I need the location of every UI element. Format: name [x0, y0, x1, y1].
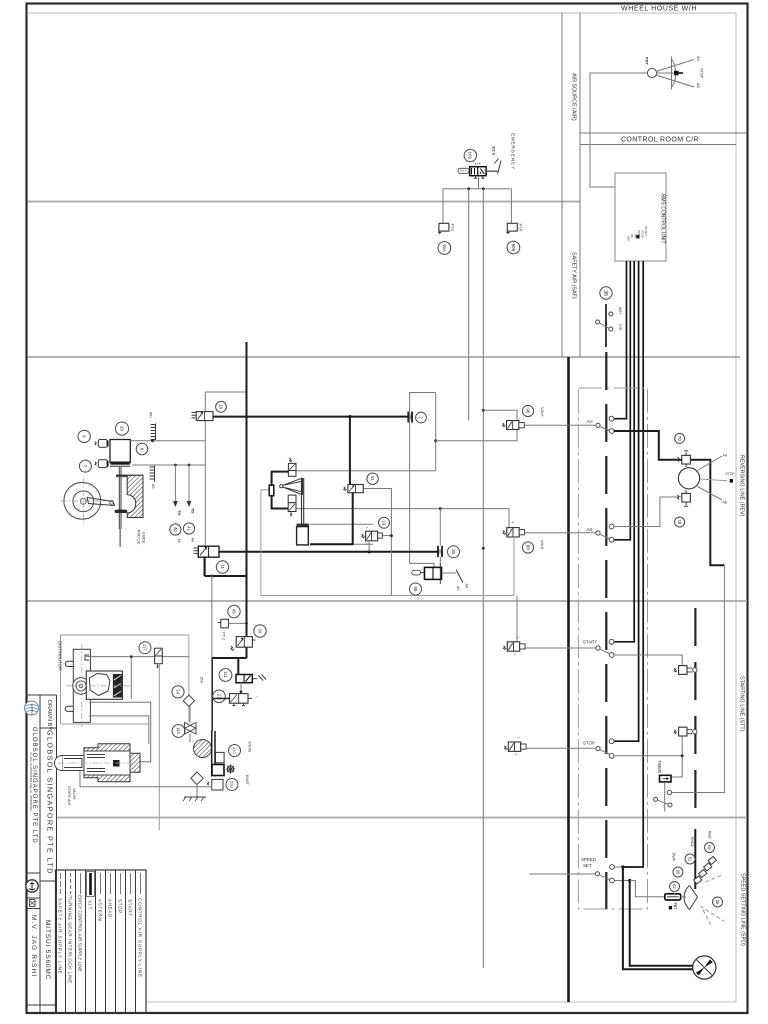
BMS tiny indicator square	[636, 235, 639, 238]
wire valve117 down	[158, 664, 160, 830]
distributor enclosure left	[60, 635, 62, 724]
svg-text:SAFETY AIR (SAF): SAFETY AIR (SAF)	[571, 252, 577, 299]
distributor lower output B	[89, 716, 149, 744]
svg-text:AS: AS	[696, 83, 700, 89]
pilot valve lower	[288, 495, 296, 516]
legend sample col7 stop	[120, 873, 122, 894]
STOP terminal upper	[609, 739, 614, 744]
manifold bold bottom y=576	[205, 575, 247, 577]
svg-text:REVERSING LINE (REV): REVERSING LINE (REV)	[739, 455, 745, 517]
title block divider x=40	[39, 695, 41, 1012]
svg-text:Co. Reg. No 200103428M Regn N: Co. Reg. No 200103428M Regn No.: ZPM0000…	[29, 752, 33, 812]
svg-text:STOP: STOP	[641, 230, 645, 238]
junction dot comb AH	[151, 439, 154, 442]
svg-text:AS: AS	[587, 527, 593, 532]
check diamond ES	[191, 772, 203, 784]
link flange30 to valve 85	[439, 557, 441, 568]
circle 41	[183, 523, 194, 534]
channel bottom thin	[354, 543, 374, 545]
reversing solenoid lower	[678, 490, 691, 506]
junction dots speed	[621, 865, 624, 868]
svg-text:DRAWN BY: DRAWN BY	[46, 700, 52, 730]
arrow line TO 40	[173, 465, 178, 507]
svg-text:PDT: PDT	[645, 57, 650, 66]
frame: inner margin right line	[735, 13, 737, 1002]
valve 11 output bold wire	[219, 551, 437, 553]
valve 11 to bottom bold link	[204, 557, 206, 576]
svg-text:EM'CY CONTROL AIR SUPPLY LINE: EM'CY CONTROL AIR SUPPLY LINE	[78, 895, 83, 972]
distributor output wire to 117	[86, 656, 189, 658]
svg-text:ASTERN: ASTERN	[98, 899, 103, 921]
AH output bold wire to reversing valve	[614, 431, 724, 565]
svg-text:SAFETY AIR SUPPLY LINE: SAFETY AIR SUPPLY LINE	[58, 898, 63, 975]
valve 61	[344, 485, 364, 493]
safety air header wire	[443, 188, 511, 190]
governor bold guide line	[694, 829, 696, 889]
svg-text:START: START	[128, 899, 133, 917]
valve 117	[155, 648, 163, 668]
stop valve body	[505, 737, 527, 756]
valve 98 output wire	[524, 424, 596, 426]
svg-text:CONTROL AIR SUPPLY LINE: CONTROL AIR SUPPLY LINE	[138, 898, 143, 978]
valve 61 pilot drop	[349, 417, 351, 485]
valve 27 left port to ES drop	[212, 698, 229, 700]
changeover pivot and blade	[596, 320, 600, 324]
component 111 box	[236, 675, 252, 683]
svg-text:28: 28	[257, 628, 262, 633]
svg-text:E/S AS: E/S AS	[248, 742, 252, 753]
section line y=201	[28, 201, 581, 203]
wire bowtie down	[189, 734, 191, 742]
SPEED output link upper	[614, 866, 623, 868]
wire start air valve drain to interlock	[80, 771, 212, 787]
loop port block	[269, 485, 274, 496]
svg-text:3/2 V: 3/2 V	[492, 146, 497, 156]
BMS output line 5 (SPEED)	[623, 261, 643, 867]
emergency bold riser x=246	[246, 342, 248, 658]
svg-text:START: START	[583, 640, 597, 645]
big air box bottom edge	[410, 563, 434, 567]
svg-text:AS: AS	[630, 234, 634, 238]
svg-text:35K: 35K	[200, 677, 204, 684]
start valve output wire	[525, 647, 596, 649]
TIMER switch pivot	[654, 797, 658, 801]
wire upper plunger valve to box	[296, 470, 436, 472]
connecting link	[87, 498, 115, 506]
junction dot right	[482, 187, 485, 190]
crank flywheel outer	[64, 482, 101, 519]
legend sample col3 emcy control line	[80, 873, 82, 894]
title block cut col2 y=728	[40, 727, 57, 729]
svg-text:SET: SET	[583, 863, 592, 868]
circle 14	[172, 686, 184, 698]
circle 2	[416, 412, 427, 423]
legend sample col5 astern	[100, 873, 102, 894]
svg-text:AS: AS	[456, 586, 460, 591]
bold dashed line x=695 (starting line)	[694, 608, 696, 812]
svg-text:SP SET: SP SET	[644, 226, 648, 236]
valve 27	[230, 694, 259, 706]
svg-text:61: 61	[370, 476, 375, 481]
air source band left line x=562	[561, 13, 563, 357]
svg-text:96: 96	[676, 870, 681, 875]
svg-text:21C: 21C	[232, 747, 236, 754]
crank centerlines	[61, 479, 106, 525]
distributor roller	[73, 678, 90, 695]
plunger valve 7	[95, 460, 108, 468]
svg-text:W/H: W/H	[618, 307, 622, 314]
valve 10 output wire to gauge 2	[213, 416, 408, 418]
check diamond 14	[183, 695, 194, 706]
speed thin branch to PDT transmitter	[630, 881, 665, 897]
svg-text:AS: AS	[723, 501, 728, 505]
big air box top edge	[410, 392, 436, 394]
changeover switch 38 circle	[600, 287, 612, 299]
legend sample col8 start	[130, 873, 132, 894]
tall manifold box top edge	[205, 391, 246, 393]
governor sector	[684, 886, 697, 910]
circle 28	[254, 625, 266, 637]
AH switch pivot	[596, 423, 600, 427]
section line y=817	[57, 817, 747, 819]
drop to PTP	[510, 189, 512, 224]
circle 98	[522, 405, 533, 416]
valve 85 assembly	[412, 563, 442, 584]
svg-text:61: 61	[688, 857, 693, 862]
distributor lower output A	[89, 702, 151, 761]
valve 19 drain to bold wire	[368, 541, 370, 552]
svg-text:AS: AS	[177, 539, 181, 544]
TIMER switch blade	[657, 800, 668, 804]
limit box 21A bold	[212, 765, 224, 776]
legend column lines	[66, 870, 136, 1013]
legend sample col6 ahead	[110, 873, 112, 894]
svg-text:W/H: W/H	[627, 236, 631, 241]
svg-text:EMERGENCY: EMERGENCY	[511, 133, 516, 170]
svg-text:13: 13	[119, 426, 124, 432]
emergency valve handle	[458, 168, 469, 173]
reversing return line down to timer contact	[672, 565, 725, 792]
valve 11	[194, 546, 220, 557]
changeover contact W/H	[609, 312, 613, 316]
SPEED feed wire from left	[529, 873, 596, 875]
valve loop pipe	[272, 472, 289, 509]
junction dot valve19 drop	[368, 550, 371, 553]
AS terminal upper	[609, 524, 614, 529]
turning gear hatched wheel	[194, 740, 212, 758]
guide pad dark	[115, 510, 128, 513]
distributor enclosure top	[61, 634, 189, 636]
rod crosshead bar	[116, 475, 127, 478]
wire box to valve98 pilot net	[436, 430, 517, 441]
wire 45 to riser	[228, 622, 246, 624]
svg-text:PTP: PTP	[518, 224, 523, 232]
SPEED switch pivot	[595, 872, 599, 876]
STOP switch blade	[600, 750, 610, 754]
logo small shield	[30, 900, 36, 907]
legend sample col4 VIT bold	[87, 872, 95, 897]
svg-text:STOP: STOP	[726, 472, 736, 476]
svg-text:55: 55	[715, 900, 720, 905]
PTC pressure switch	[439, 223, 449, 234]
BMS output line 1 (AH)	[614, 261, 627, 419]
svg-text:V/AS: V/AS	[540, 540, 545, 549]
TIMER switch contact a	[667, 790, 671, 794]
svg-text:GLOBSOL SINGAPORE PTE LTD: GLOBSOL SINGAPORE PTE LTD	[46, 730, 55, 875]
bold jog at 658	[212, 657, 247, 659]
BMS output line 3 (START)	[614, 261, 634, 642]
svg-text:P: P	[514, 754, 518, 756]
thin enclosure right edge	[513, 536, 515, 596]
valve 28	[231, 637, 255, 651]
thin enclosure left edge	[260, 490, 262, 596]
svg-text:GLOBSOL: GLOBSOL	[30, 704, 34, 717]
svg-text:38: 38	[602, 290, 608, 296]
svg-text:START AIR: START AIR	[67, 786, 71, 805]
circle 19	[379, 517, 390, 528]
circle 11	[216, 561, 228, 573]
svg-text:E/AST: E/AST	[245, 775, 249, 785]
AH terminal upper	[609, 416, 614, 421]
svg-text:PT 2: PT 2	[222, 632, 226, 640]
big air box left edge	[409, 392, 411, 563]
title block cut col1 y=898	[28, 897, 41, 899]
svg-text:TIMER: TIMER	[657, 760, 662, 773]
circle 6	[136, 443, 148, 455]
frame: inner margin bottom line	[146, 1001, 736, 1003]
circle 30	[448, 546, 460, 558]
AS thin wire to reversing solenoid	[614, 497, 681, 527]
svg-text:90A: 90A	[442, 244, 447, 252]
svg-text:A/H: A/H	[149, 412, 153, 418]
hose marks at 111	[252, 675, 266, 681]
bold dashed line x=606	[605, 352, 607, 909]
start valve body	[504, 637, 526, 656]
svg-text:BMS CONTROL UNIT: BMS CONTROL UNIT	[660, 194, 666, 244]
pilot wire from safety line to valve 98	[483, 410, 517, 420]
reversing indicator lines	[698, 456, 723, 500]
distributor enclosure right lower	[188, 706, 190, 722]
svg-text:SPEED SETTING LINE (SPD): SPEED SETTING LINE (SPD)	[740, 873, 746, 946]
actuator rod	[302, 478, 304, 524]
indicator asterisk	[226, 765, 235, 774]
svg-text:P: P	[513, 654, 517, 656]
control room band lower line y=144	[580, 144, 736, 146]
svg-text:11: 11	[220, 564, 225, 569]
enclosure feed stub	[261, 489, 269, 491]
STOP switch pivot	[596, 746, 600, 750]
valve 61 output to pilot bus	[363, 489, 391, 596]
svg-text:MITSUI 5S60MC: MITSUI 5S60MC	[44, 920, 51, 980]
BMS output line 2 (AS)	[614, 261, 631, 540]
svg-text:AH: AH	[696, 56, 700, 62]
logo anchor emblem	[26, 880, 38, 892]
svg-text:AS: AS	[151, 484, 155, 489]
svg-text:AHEAD: AHEAD	[108, 899, 113, 918]
circle 96	[673, 867, 683, 877]
wire telegraph to BMS	[590, 73, 647, 187]
legend sample col1 safety air line	[60, 873, 62, 894]
valve 19 output to pilot bus	[382, 535, 390, 537]
junction dot 435.7/440.8	[434, 439, 437, 442]
svg-text:RHCA: RHCA	[690, 837, 694, 847]
svg-text:RHO: RHO	[707, 831, 711, 839]
throttle bowtie 110	[185, 723, 197, 735]
distributor piston dark	[113, 674, 122, 698]
svg-text:41: 41	[187, 526, 192, 531]
long safety vertical x=483.3	[482, 189, 484, 968]
valve 98 body	[503, 421, 525, 430]
dash-dot enclosure box (engine room panel)	[578, 388, 647, 909]
start valve pilot line from enclosure	[516, 596, 518, 642]
START switch blade	[600, 649, 610, 653]
circle 27	[213, 690, 226, 703]
svg-text:ROD LIK: ROD LIK	[137, 530, 141, 545]
junction dot 483/410	[482, 409, 485, 412]
svg-text:STARTING LINE (STT): STARTING LINE (STT)	[739, 676, 745, 732]
telegraph lever lines	[656, 60, 694, 88]
valve 85 switch indicator	[442, 570, 464, 583]
comb AS notch scale	[150, 466, 155, 482]
STT start solenoid valve	[674, 666, 697, 675]
circle 110	[172, 725, 185, 738]
svg-text:V.I.T: V.I.T	[88, 900, 93, 909]
svg-text:14: 14	[175, 689, 180, 694]
svg-text:111: 111	[223, 671, 228, 678]
STT stop solenoid valve	[674, 727, 697, 736]
svg-text:STOP: STOP	[118, 899, 123, 914]
title block top line y=695	[28, 694, 57, 696]
START terminal upper	[609, 639, 614, 644]
gauge flange 2	[408, 412, 412, 423]
distributor guide frame	[65, 649, 90, 722]
circle 61 speed	[685, 854, 695, 864]
feed wire lower valve net to valve 88	[296, 509, 509, 527]
svg-text:STOP: STOP	[700, 68, 704, 79]
valve 19	[362, 527, 383, 546]
junction dots arrows	[174, 464, 177, 467]
svg-text:AH: AH	[191, 538, 195, 543]
svg-text:85: 85	[413, 586, 418, 591]
distributor centerline horizontal	[66, 685, 130, 687]
thin enclosure bottom edge	[261, 595, 514, 597]
frame: inner margin top line	[27, 12, 736, 14]
junction dot left	[467, 187, 470, 190]
changeover switch 38 stem	[605, 304, 607, 347]
AH terminal lower	[609, 429, 614, 434]
governor motor X circle	[693, 956, 716, 979]
distributor centerline vertical	[81, 644, 83, 727]
title block divider x=56	[56, 695, 58, 1012]
PDT speed transmitter capsule	[665, 894, 681, 900]
SPEED terminal lower	[610, 878, 615, 883]
circle 85	[410, 583, 422, 595]
speed pair bold line B	[630, 881, 693, 966]
piston rod from block 6	[119, 467, 121, 529]
SPEED switch blade	[599, 875, 609, 879]
circle 90A	[438, 242, 451, 255]
svg-text:RWA: RWA	[671, 853, 675, 861]
reversing ball valve 70	[678, 468, 699, 489]
pilot valve upper (slow turning)	[288, 458, 296, 476]
svg-text:110: 110	[176, 727, 181, 734]
START switch pivot	[596, 646, 600, 650]
channel top line	[310, 523, 373, 525]
BMS output line 4 (STOP)	[614, 261, 639, 741]
BMS control unit box	[615, 173, 666, 261]
distributor cam body	[86, 671, 122, 699]
svg-text:98: 98	[525, 408, 530, 413]
circle 55	[713, 897, 723, 907]
title block cut col1 y=908	[28, 908, 41, 910]
channel bottom bold	[310, 543, 354, 545]
emergency lever slash	[495, 159, 502, 175]
svg-text:101: 101	[468, 152, 473, 160]
circle 90B	[507, 241, 520, 254]
distributor cam lobe	[90, 674, 111, 696]
svg-text:70: 70	[677, 519, 682, 524]
title block cut col2 y=881	[40, 880, 57, 882]
STOP thin wire with junction to stop solenoid and timer	[614, 736, 682, 778]
emergency lever wire	[486, 170, 497, 172]
ES AS channel double line	[212, 731, 215, 777]
svg-text:40: 40	[173, 527, 178, 532]
valve 88 output wire	[525, 532, 596, 534]
section line y=601	[28, 600, 748, 602]
svg-text:WHEEL HOUSE W/H: WHEEL HOUSE W/H	[621, 6, 697, 13]
circle 88	[522, 542, 533, 553]
AS switch pivot	[596, 531, 600, 535]
svg-text:PDT: PDT	[673, 903, 677, 911]
svg-text:VALVE: VALVE	[72, 788, 76, 800]
wire block6 lower (AS line)	[132, 464, 205, 466]
pressure box 45	[218, 619, 229, 628]
changeover contact C/R	[609, 327, 613, 331]
svg-text:45: 45	[231, 609, 236, 614]
main bold divider x=568	[567, 357, 570, 1002]
title block cut y=1005	[28, 1004, 57, 1006]
svg-text:TO: TO	[177, 510, 182, 515]
svg-text:AH: AH	[465, 584, 469, 589]
svg-text:PTC: PTC	[450, 224, 455, 232]
wire PDT to sector	[681, 896, 686, 898]
AS switch blade	[600, 534, 610, 538]
long safety vertical x=468.7	[468, 189, 470, 421]
circle 40	[170, 524, 181, 535]
exhaust ground symbol	[183, 797, 206, 801]
plunger valve 8	[95, 440, 108, 448]
circle 111	[219, 669, 232, 682]
limit box 21B	[208, 779, 224, 790]
reversing solenoid upper	[678, 451, 691, 467]
wire 111 to valve 27	[240, 683, 242, 694]
telegraph quadrant arc	[672, 57, 676, 90]
svg-text:STOP: STOP	[583, 741, 595, 746]
guide wall hatched	[127, 475, 143, 517]
crank hub	[80, 498, 86, 504]
svg-text:21B: 21B	[230, 781, 234, 788]
circle 101	[464, 149, 476, 161]
title block cut col1 y=873	[28, 872, 41, 874]
SPEED output link lower	[614, 880, 629, 882]
guide top flange	[116, 474, 143, 476]
svg-text:C/R: C/R	[618, 324, 622, 331]
junction dot 391/535	[390, 534, 393, 537]
circle 42	[670, 882, 680, 892]
PTP pressure switch	[507, 223, 517, 234]
circle 70 lower	[675, 517, 685, 527]
circle 117	[139, 642, 151, 654]
